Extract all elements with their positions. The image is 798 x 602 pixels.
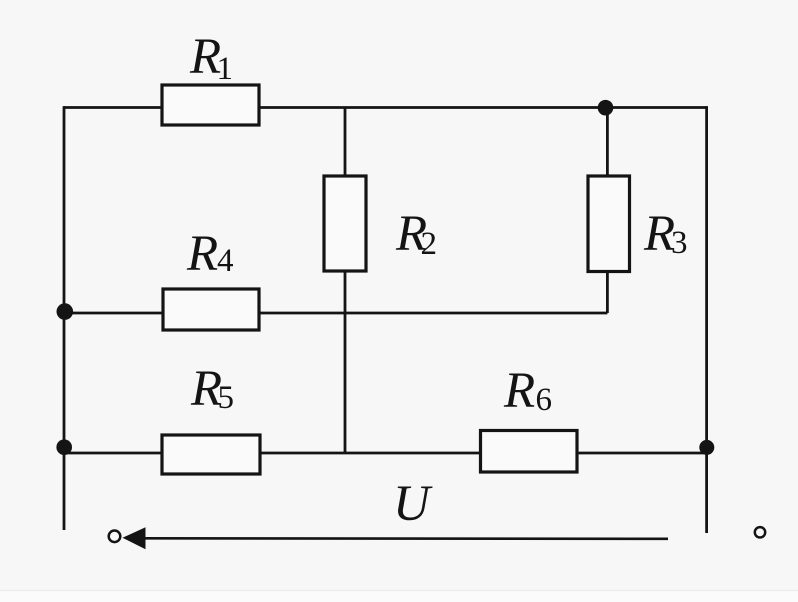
- wire: R3 branch vertical: [606, 108, 609, 314]
- svg-text:6: 6: [536, 382, 553, 418]
- svg-text:R: R: [186, 226, 218, 282]
- svg-text:3: 3: [671, 225, 688, 261]
- resistor R5: [162, 361, 260, 474]
- wire: bottom horizontal net (R5/R6 row): [64, 452, 707, 455]
- wire: top horizontal net: [64, 106, 707, 109]
- terminal left (open circle): [109, 531, 121, 543]
- junction node top (R3 tap): [598, 100, 614, 116]
- wire: left rail: [63, 106, 66, 530]
- wire: R2 branch vertical: [344, 108, 347, 454]
- junction node left middle: [57, 303, 74, 320]
- arrowhead of U arrow: [123, 527, 146, 549]
- svg-text:4: 4: [217, 243, 234, 279]
- svg-text:U: U: [393, 476, 433, 532]
- resistor R6: [481, 363, 578, 472]
- junction node left bottom: [56, 439, 72, 455]
- wire: middle horizontal net (R4 row): [64, 312, 607, 315]
- svg-text:2: 2: [421, 226, 438, 262]
- junction node right bottom: [699, 440, 714, 455]
- svg-text:1: 1: [217, 51, 234, 87]
- terminal right (open circle): [755, 527, 765, 537]
- svg-text:R: R: [503, 363, 535, 419]
- wire: right rail: [705, 106, 708, 533]
- svg-text:5: 5: [218, 380, 235, 416]
- resistor R3: [588, 176, 688, 272]
- resistor R1: [162, 29, 259, 125]
- resistor R4: [163, 226, 259, 330]
- wire: U arrow shaft: [140, 537, 668, 540]
- resistor R2: [324, 176, 437, 271]
